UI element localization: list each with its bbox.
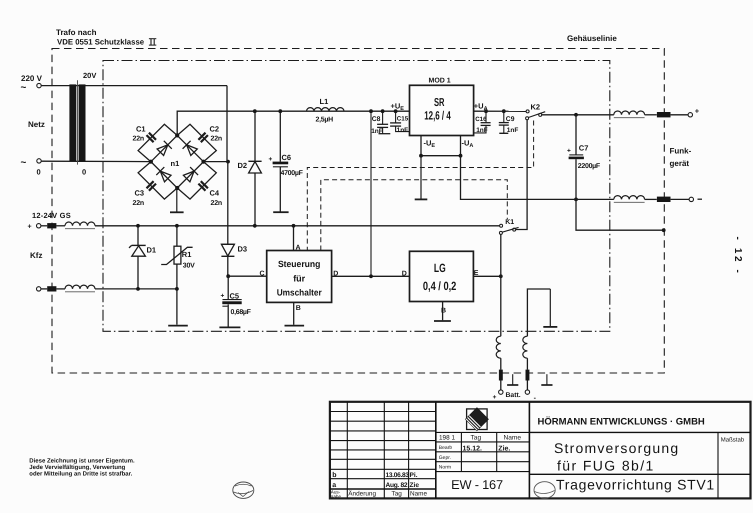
svg-text:22n: 22n bbox=[211, 200, 222, 207]
svg-text:Maßstab: Maßstab bbox=[721, 437, 745, 444]
svg-text:C8: C8 bbox=[372, 116, 381, 123]
svg-text:C16: C16 bbox=[475, 116, 487, 123]
capacitor C2 22n (across top-right diode) bbox=[198, 133, 208, 143]
wire bridge E to AC node bbox=[204, 161, 229, 163]
svg-text:Steuerung: Steuerung bbox=[278, 259, 321, 269]
choke Kfz+ input bbox=[65, 222, 95, 229]
svg-text:n1: n1 bbox=[171, 159, 180, 168]
capacitor C5 0.68uF electrolytic bbox=[222, 276, 241, 326]
svg-text:Gepr.: Gepr. bbox=[439, 455, 451, 461]
svg-text:Zie: Zie bbox=[410, 482, 420, 489]
pin -UA with label bbox=[461, 136, 474, 156]
node D junction bbox=[369, 274, 373, 278]
feedthrough capacitor battery - bbox=[526, 370, 530, 381]
node D2 top on +bus bbox=[253, 109, 257, 113]
svg-text:gerät: gerät bbox=[670, 159, 690, 168]
pin B wire Steuerung bbox=[293, 302, 295, 324]
svg-text:12,6 / 4: 12,6 / 4 bbox=[424, 109, 451, 123]
svg-text:+: + bbox=[567, 147, 571, 154]
case outline Gehaeuselinie (outer dashed enclosure) bbox=[52, 49, 664, 374]
varistor R1 30V bbox=[161, 226, 192, 325]
svg-text:15.12.: 15.12. bbox=[463, 446, 483, 453]
terminal Funkgeraet - bbox=[689, 197, 693, 201]
node C16 on output wire bbox=[484, 109, 488, 113]
label C15 1nF bbox=[397, 116, 409, 134]
svg-text:gabe: gabe bbox=[331, 494, 342, 499]
choke battery + bbox=[496, 336, 501, 358]
revision header row bbox=[331, 489, 428, 499]
wire node C to Steuerung pin C bbox=[228, 275, 267, 277]
disclaimer text bbox=[29, 458, 135, 478]
switch contact K2 bbox=[526, 110, 546, 120]
svg-text:~: ~ bbox=[21, 83, 27, 94]
revision row b bbox=[332, 471, 417, 479]
choke - output bbox=[614, 196, 645, 203]
label ~ 0 (neutral) bbox=[21, 158, 41, 177]
capacitor C9 1nF bbox=[499, 111, 509, 133]
svg-text:13.06.83: 13.06.83 bbox=[386, 472, 410, 479]
svg-text:C9: C9 bbox=[506, 116, 515, 123]
svg-text:2200µF: 2200µF bbox=[578, 163, 601, 170]
svg-text:Kfz: Kfz bbox=[30, 251, 42, 260]
label C8 1nF bbox=[371, 116, 383, 135]
svg-text:Jede Vervielfältigung, Verwert: Jede Vervielfältigung, Verwertung bbox=[29, 464, 125, 471]
ground at R1 bbox=[168, 325, 188, 327]
svg-text:30V: 30V bbox=[183, 262, 195, 269]
svg-text:C6: C6 bbox=[282, 153, 292, 162]
svg-text:~: ~ bbox=[21, 158, 27, 169]
svg-text:+: + bbox=[269, 156, 273, 163]
date name header bbox=[439, 435, 521, 442]
capacitor C4 22n (across bottom-right diode) bbox=[198, 181, 208, 191]
charger block LG 0,4/0,2 bbox=[410, 251, 474, 301]
Bearb row bbox=[439, 445, 511, 453]
bridge rectifier n1 outline bbox=[138, 124, 216, 199]
ground at C6 bbox=[273, 211, 288, 213]
svg-text:MOD 1: MOD 1 bbox=[429, 78, 451, 85]
svg-text:b: b bbox=[332, 471, 336, 479]
wire 220V top to transformer and 20V feed bbox=[41, 85, 227, 87]
node R1 at Kfz return bbox=[175, 287, 179, 291]
svg-text:Gehäuselinie: Gehäuselinie bbox=[567, 34, 617, 43]
svg-text:22n: 22n bbox=[211, 136, 222, 143]
svg-text:A: A bbox=[296, 245, 301, 252]
svg-text:D: D bbox=[333, 271, 338, 278]
terminal 220V neutral bbox=[37, 159, 41, 163]
svg-text:D2: D2 bbox=[238, 161, 248, 170]
svg-text:R1: R1 bbox=[182, 250, 192, 259]
wire 20V drop to AC node and D3 branch bbox=[226, 86, 229, 245]
svg-text:Tag: Tag bbox=[471, 435, 482, 442]
node C6 top on +bus bbox=[278, 109, 282, 113]
svg-text:Netz: Netz bbox=[28, 120, 45, 129]
svg-text:C15: C15 bbox=[397, 116, 409, 123]
inner shield outline (dash-dot enclosure) bbox=[103, 61, 610, 332]
revision row a bbox=[332, 482, 419, 489]
wire D (Steuerung to LG) bbox=[332, 275, 410, 277]
label C9 1nF bbox=[506, 116, 519, 134]
pin B wire LG bbox=[442, 302, 444, 321]
wire 12-24V rail bbox=[41, 225, 500, 227]
ground at -UE bbox=[420, 156, 422, 200]
capacitor C3 22n (across bottom-left diode) bbox=[147, 181, 157, 191]
node E junction bbox=[499, 274, 503, 278]
choke + output bbox=[614, 111, 645, 118]
svg-text:+: + bbox=[221, 293, 225, 300]
label + C5 0,68uF bbox=[221, 291, 252, 316]
case ground right of Batt bbox=[546, 374, 548, 385]
node bridge S bbox=[175, 186, 179, 190]
bridge diode bottom-right (conducts S to E) bbox=[183, 167, 198, 182]
label C4 22n bbox=[210, 189, 222, 207]
svg-text:+: + bbox=[28, 224, 32, 231]
node D2 bottom on rail bbox=[253, 224, 257, 228]
wire bridge N to +bus bbox=[177, 111, 409, 135]
svg-text:für FUG 8b/1: für FUG 8b/1 bbox=[557, 458, 655, 474]
capacitor C16 10nF bbox=[474, 111, 491, 133]
dashed actuator link K2 to Steuerung bbox=[307, 121, 533, 251]
ground at battery minus bbox=[549, 289, 551, 327]
node D1 bottom bbox=[136, 287, 140, 291]
svg-text:Name: Name bbox=[504, 435, 522, 442]
node C8 on +bus bbox=[381, 109, 385, 113]
choke Kfz- input bbox=[65, 285, 95, 292]
svg-text:22n: 22n bbox=[133, 200, 144, 207]
svg-text:D: D bbox=[402, 271, 407, 278]
svg-text:L1: L1 bbox=[320, 97, 329, 106]
svg-text:4700µF: 4700µF bbox=[281, 170, 304, 177]
svg-text:+: + bbox=[493, 394, 497, 401]
node +bus junction x371 bbox=[369, 109, 373, 113]
svg-text:1nF: 1nF bbox=[397, 127, 409, 134]
node bridge E bbox=[201, 160, 205, 164]
bridge diode top-left (conducts W to N) bbox=[157, 141, 172, 156]
label + C6 4700uF bbox=[269, 153, 304, 177]
svg-text:+: + bbox=[695, 107, 700, 116]
svg-text:- 12 -: - 12 - bbox=[732, 237, 743, 276]
svg-text:Diese Zeichnung ist unser Eige: Diese Zeichnung ist unser Eigentum. bbox=[29, 458, 135, 465]
case ground left of Batt bbox=[512, 374, 514, 385]
label - (Funkgeraet) bbox=[698, 198, 703, 200]
wire case bond from - wire to case bbox=[576, 199, 664, 230]
title block frame bbox=[330, 402, 751, 499]
svg-text:E: E bbox=[474, 270, 479, 277]
label C1 22n bbox=[133, 125, 146, 143]
terminal Batt - bbox=[525, 390, 529, 394]
wire MOD1 +UA to K2 bbox=[474, 110, 527, 112]
ground at bridge S bbox=[176, 188, 178, 212]
node bridge W bbox=[149, 160, 153, 164]
terminal Funkgeraet + bbox=[688, 113, 692, 117]
diode D2 bbox=[248, 111, 261, 226]
wire Kfz return bbox=[41, 288, 177, 290]
diode D3 bbox=[221, 244, 234, 276]
svg-text:a: a bbox=[332, 482, 336, 489]
node AC junction bbox=[226, 160, 230, 164]
svg-text:B: B bbox=[441, 308, 446, 315]
wire 220V neutral to bridge W bbox=[41, 160, 151, 162]
ground at Steuerung B bbox=[285, 325, 305, 327]
svg-text:20V: 20V bbox=[83, 71, 96, 80]
svg-text:C4: C4 bbox=[210, 189, 220, 198]
wire - output row bbox=[461, 156, 690, 200]
wire battery - branch bbox=[527, 289, 550, 390]
choke battery - bbox=[523, 336, 528, 358]
terminal Kfz + (12-24V) bbox=[37, 224, 41, 228]
node pin A on rail bbox=[292, 224, 296, 228]
svg-text:C2: C2 bbox=[210, 125, 220, 134]
switch contact K1 bbox=[499, 224, 518, 234]
inductor L1 2,5uH bbox=[307, 108, 345, 112]
svg-text:SR: SR bbox=[434, 97, 445, 109]
label 220 V ~ bbox=[21, 74, 43, 94]
label C2 22n bbox=[210, 125, 222, 143]
svg-text:-UA: -UA bbox=[462, 138, 474, 149]
node -UE bbox=[419, 154, 423, 158]
label + Batt. - bbox=[493, 392, 537, 402]
node C7 bottom bbox=[574, 198, 578, 202]
svg-text:Aug. 82: Aug. 82 bbox=[386, 482, 408, 489]
svg-text:Stromversorgung: Stromversorgung bbox=[554, 440, 679, 456]
node C15 on +bus bbox=[394, 109, 398, 113]
transformer T1 (Trafo) bbox=[69, 80, 85, 164]
label C3 22n bbox=[133, 189, 145, 207]
dashed actuator link K1 to Steuerung bbox=[321, 180, 508, 251]
label L1 2,5uH bbox=[316, 97, 334, 124]
svg-text:22n: 22n bbox=[133, 136, 144, 143]
capacitor C8 1nF bbox=[377, 111, 390, 134]
capacitor C6 4700uF electrolytic bbox=[273, 111, 289, 212]
svg-text:K2: K2 bbox=[531, 103, 541, 112]
capacitor C1 22n (across top-left diode) bbox=[147, 133, 157, 143]
svg-text:D1: D1 bbox=[147, 246, 157, 255]
ground at LG B bbox=[434, 320, 451, 322]
wire + output row bbox=[542, 114, 688, 116]
capacitor C15 10nF bbox=[390, 111, 409, 131]
svg-text:Änderung: Änderung bbox=[348, 490, 376, 498]
wire K1 common to battery + bbox=[500, 234, 502, 390]
pin -UE with label bbox=[421, 136, 435, 156]
logo Hoermann bbox=[464, 408, 489, 433]
svg-text:Tag: Tag bbox=[392, 491, 403, 498]
pin A wire bbox=[293, 226, 295, 251]
svg-text:198 1: 198 1 bbox=[439, 435, 455, 442]
wire E (LG to K1 common drop) bbox=[473, 275, 499, 277]
svg-text:K1: K1 bbox=[505, 219, 514, 226]
svg-text:1nF: 1nF bbox=[507, 127, 519, 134]
svg-text:C3: C3 bbox=[135, 189, 145, 198]
regulator module MOD1 SR 12,6/4 bbox=[410, 85, 474, 135]
wire +UE sense drop (bus to D line) bbox=[370, 111, 372, 276]
svg-text:1nF: 1nF bbox=[476, 127, 488, 134]
node case bond on enclosure bbox=[662, 228, 666, 232]
svg-text:Trafo nach: Trafo nach bbox=[56, 28, 97, 37]
feedthrough capacitor battery + bbox=[499, 370, 503, 381]
svg-text:HÖRMANN ENTWICKLUNGS · GMBH: HÖRMANN ENTWICKLUNGS · GMBH bbox=[538, 416, 705, 428]
ground at C5 bbox=[219, 326, 240, 328]
svg-text:VDE 0551 Schutzklasse: VDE 0551 Schutzklasse bbox=[57, 38, 145, 47]
svg-text:D3: D3 bbox=[238, 245, 248, 254]
wire K2 common drop to K1 bbox=[516, 120, 527, 230]
label Funk-geraet bbox=[670, 147, 692, 169]
stamp circle right bbox=[534, 482, 555, 499]
zener diode D1 bbox=[129, 226, 146, 289]
terminal 220V phase bbox=[37, 83, 41, 87]
svg-text:oder Mitteilung an Dritte ist: oder Mitteilung an Dritte ist strafbar. bbox=[29, 471, 132, 478]
svg-text:C5: C5 bbox=[230, 291, 240, 300]
svg-text:LG: LG bbox=[434, 261, 446, 275]
terminal Kfz - bbox=[37, 287, 41, 291]
label C16 1nF bbox=[475, 116, 488, 134]
svg-text:für: für bbox=[293, 274, 305, 284]
title Stromversorgung fuer FUG 8b/1 bbox=[554, 440, 679, 474]
svg-text:C: C bbox=[260, 271, 265, 278]
node C7 top bbox=[574, 113, 578, 117]
svg-text:Norm: Norm bbox=[439, 465, 451, 471]
feedthrough capacitor - output bbox=[657, 197, 671, 202]
label + C7 2200uF bbox=[567, 144, 601, 170]
capacitor C7 2200uF electrolytic bbox=[569, 115, 584, 200]
label R1 30V bbox=[182, 250, 195, 269]
bridge diode bottom-left (conducts S to W) bbox=[156, 167, 171, 182]
svg-text:-UE: -UE bbox=[424, 138, 436, 149]
label Trafo nach VDE 0551 Schutzklasse II bbox=[56, 28, 156, 47]
node R1 top on rail bbox=[175, 224, 179, 228]
svg-text:Umschalter: Umschalter bbox=[277, 288, 322, 298]
svg-text:+UE: +UE bbox=[391, 102, 405, 113]
svg-text:C1: C1 bbox=[136, 125, 146, 134]
svg-text:2,5µH: 2,5µH bbox=[316, 117, 334, 124]
node C9 on output wire bbox=[502, 109, 506, 113]
feedthrough capacitor + output bbox=[657, 112, 671, 117]
feedthrough capacitor Kfz- bbox=[47, 286, 56, 291]
svg-text:EW - 167: EW - 167 bbox=[451, 477, 503, 492]
wire -U bus bbox=[421, 155, 461, 157]
svg-text:B: B bbox=[296, 305, 301, 312]
svg-text:Funk-: Funk- bbox=[670, 147, 692, 156]
terminal Batt + bbox=[499, 390, 503, 394]
svg-text:Zie.: Zie. bbox=[498, 445, 510, 453]
svg-text:Tragevorrichtung STV1: Tragevorrichtung STV1 bbox=[556, 477, 715, 493]
svg-text:0,68µF: 0,68µF bbox=[231, 309, 252, 316]
svg-text:Bearb: Bearb bbox=[439, 445, 453, 451]
svg-text:Batt.: Batt. bbox=[506, 392, 521, 399]
stamp circle left bbox=[233, 482, 254, 498]
feedthrough capacitor Kfz+ bbox=[47, 223, 56, 228]
control block Steuerung fuer Umschalter bbox=[267, 251, 332, 303]
node -UA bbox=[459, 154, 463, 158]
node D1 top on rail bbox=[136, 224, 140, 228]
svg-text:C7: C7 bbox=[579, 144, 589, 153]
svg-text:1nF: 1nF bbox=[371, 128, 383, 135]
svg-text:0: 0 bbox=[37, 168, 41, 177]
svg-text:12-24V GS: 12-24V GS bbox=[32, 211, 71, 220]
svg-text:Pi.: Pi. bbox=[410, 472, 418, 479]
svg-text:0: 0 bbox=[82, 168, 86, 177]
bridge diode top-right (conducts E to N) bbox=[183, 141, 198, 156]
node C (mains detect) bbox=[226, 274, 230, 278]
title block grid lines bbox=[330, 402, 751, 499]
label 12-24V GS bbox=[28, 211, 71, 231]
svg-text:Name: Name bbox=[410, 491, 427, 498]
svg-text:0,4 / 0,2: 0,4 / 0,2 bbox=[423, 279, 457, 293]
node bridge N bbox=[175, 133, 179, 137]
